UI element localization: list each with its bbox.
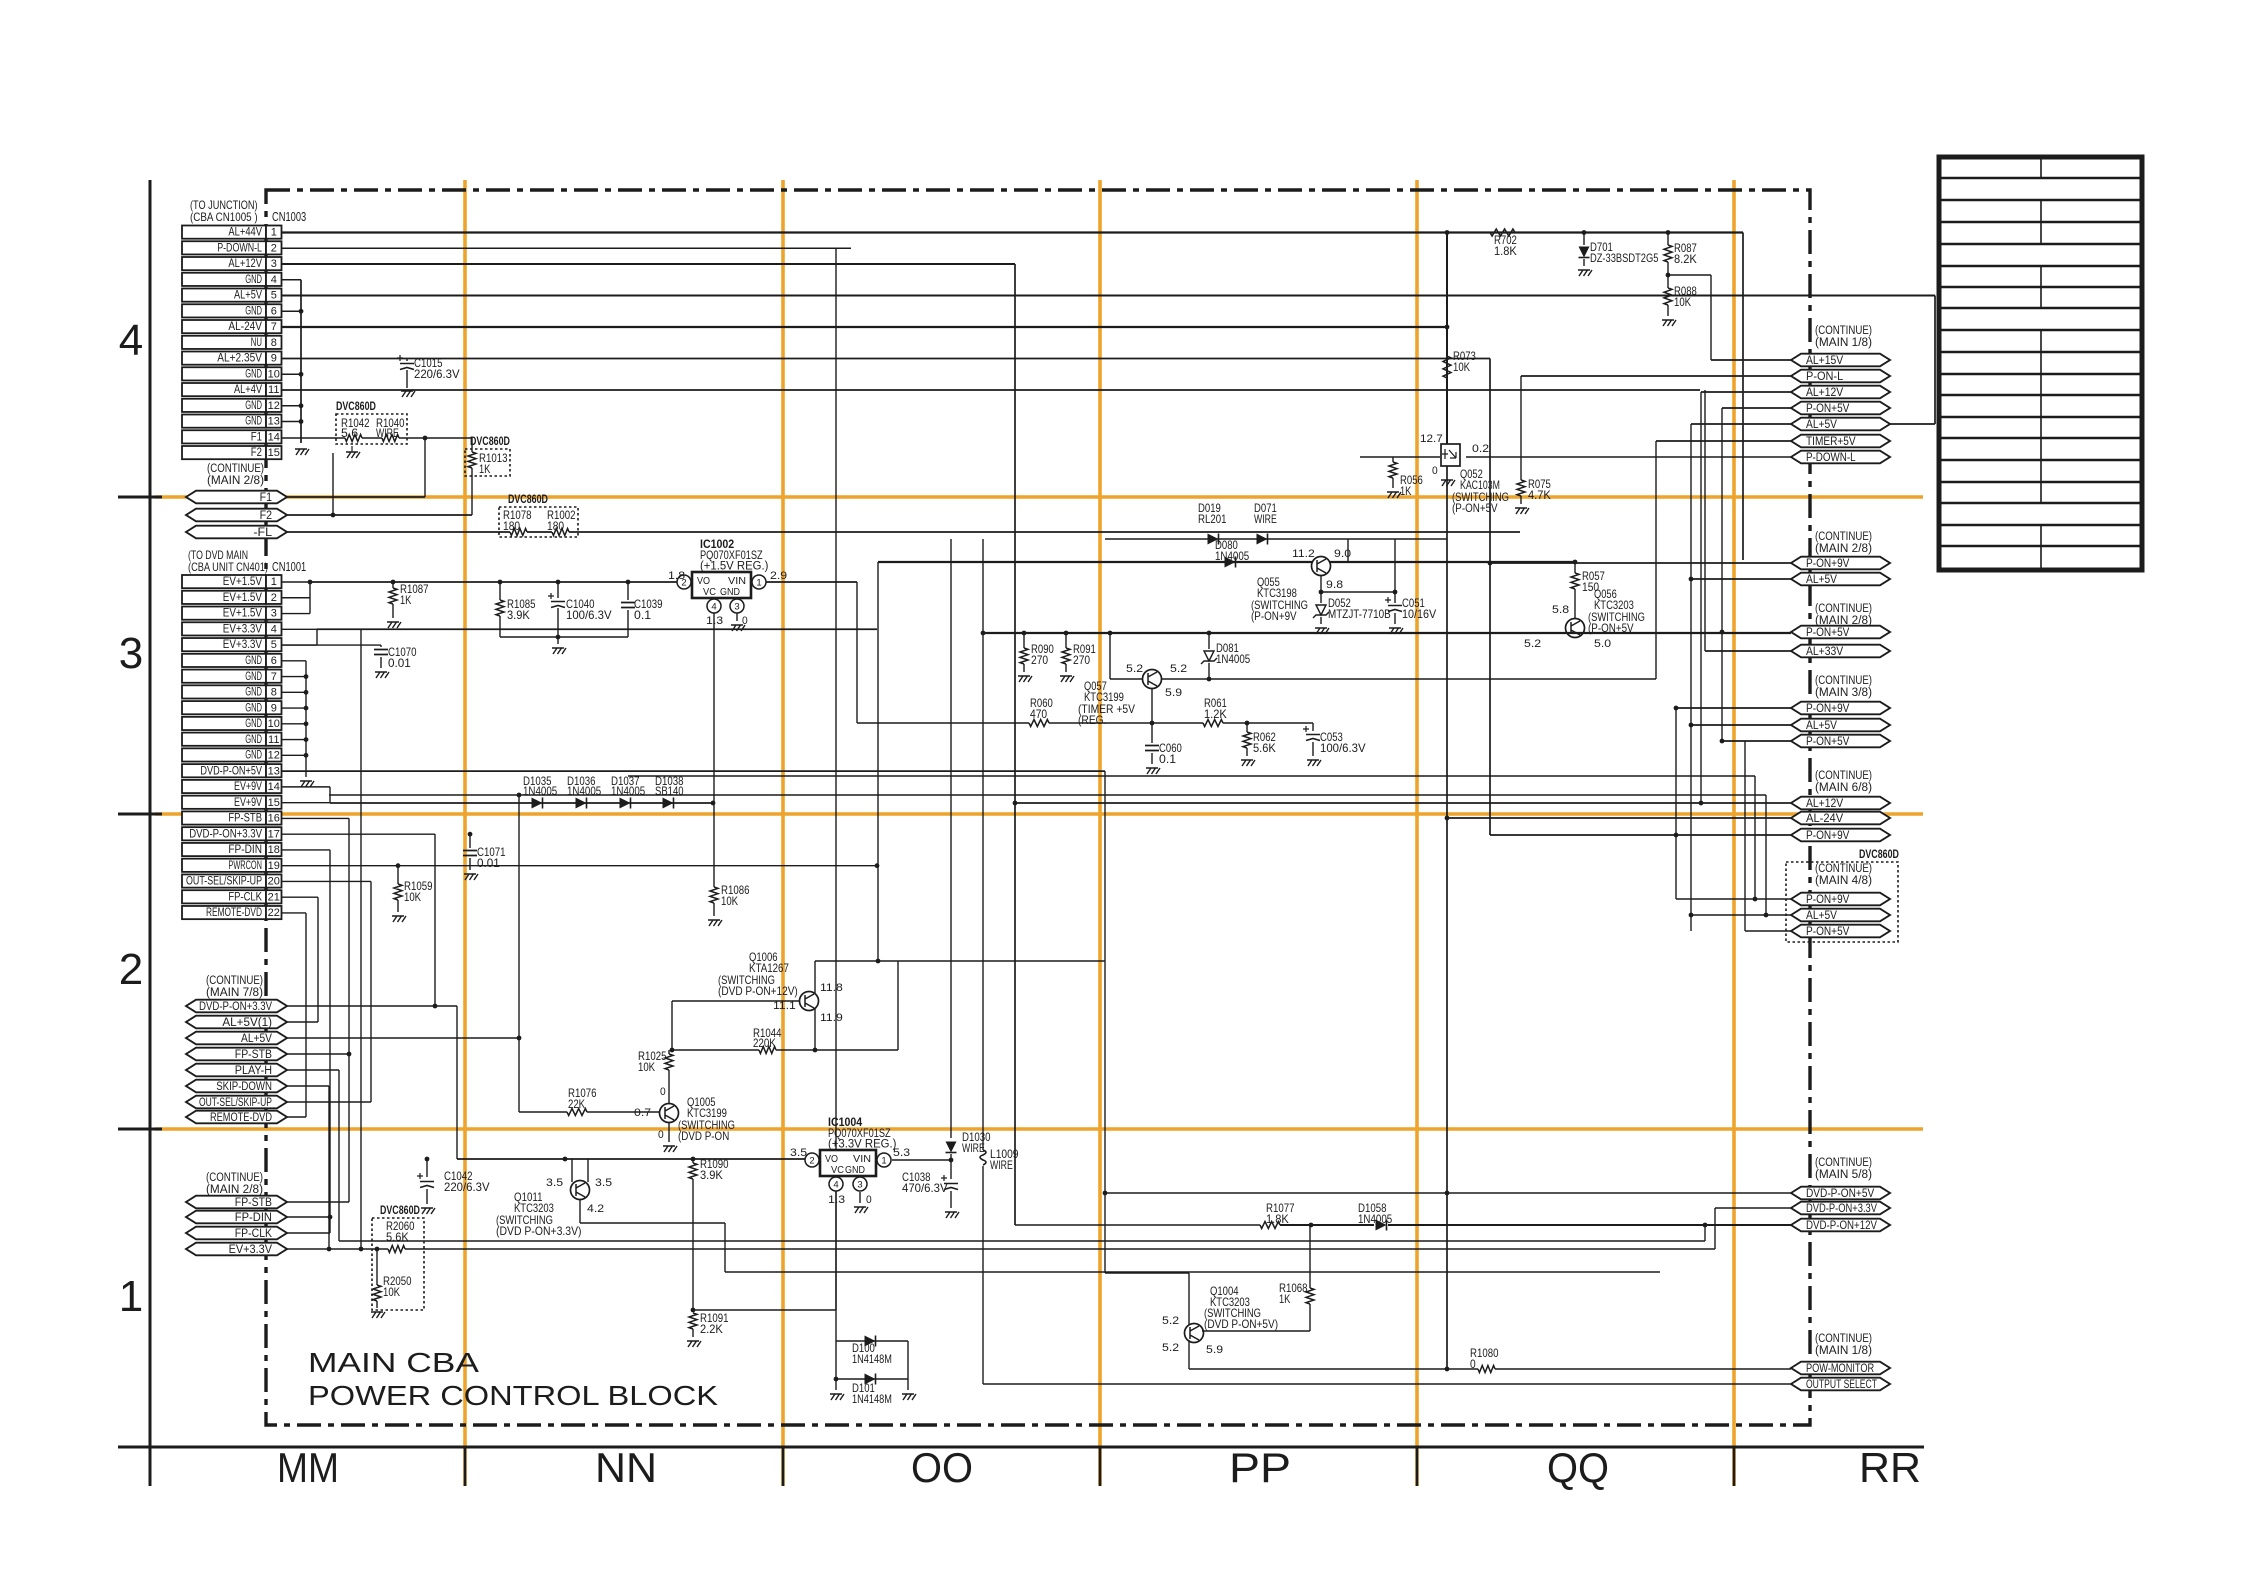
svg-text:1K: 1K xyxy=(400,593,411,607)
svg-text:4: 4 xyxy=(271,274,277,286)
svg-text:DVD-P-ON+3.3V: DVD-P-ON+3.3V xyxy=(1806,1203,1877,1215)
svg-text:AL+5V: AL+5V xyxy=(1806,720,1837,732)
svg-text:(+3.3V REG.): (+3.3V REG.) xyxy=(828,1139,897,1151)
svg-text:5.9: 5.9 xyxy=(1165,687,1182,699)
svg-text:DVD-P-ON+3.3V: DVD-P-ON+3.3V xyxy=(199,1001,272,1013)
svg-text:(CONTINUE): (CONTINUE) xyxy=(1815,531,1872,543)
svg-text:PP: PP xyxy=(1229,1444,1291,1491)
svg-text:EV+3.3V: EV+3.3V xyxy=(229,1244,273,1256)
svg-text:4.7K: 4.7K xyxy=(1528,488,1551,502)
svg-text:AL-24V: AL-24V xyxy=(228,321,262,333)
svg-text:(CBA CN1005 ): (CBA CN1005 ) xyxy=(190,210,258,224)
svg-text:5.6K: 5.6K xyxy=(386,1230,409,1244)
svg-text:8: 8 xyxy=(271,687,277,699)
svg-text:AL+2.35V: AL+2.35V xyxy=(217,353,262,365)
svg-text:5.2: 5.2 xyxy=(1126,663,1143,675)
svg-text:270: 270 xyxy=(1031,653,1048,667)
svg-text:DVC860D: DVC860D xyxy=(1859,847,1899,861)
svg-text:WIRE: WIRE xyxy=(1254,512,1277,526)
svg-text:11.2: 11.2 xyxy=(1292,548,1315,560)
svg-text:OO: OO xyxy=(911,1444,973,1491)
svg-text:3: 3 xyxy=(271,258,277,270)
svg-text:220/6.3V: 220/6.3V xyxy=(414,367,460,381)
svg-text:14: 14 xyxy=(268,781,280,793)
svg-text:F1: F1 xyxy=(260,492,272,504)
svg-text:OUTPUT SELECT: OUTPUT SELECT xyxy=(1806,1379,1877,1391)
svg-text:1N4005: 1N4005 xyxy=(523,784,557,798)
svg-text:0: 0 xyxy=(660,1086,666,1098)
svg-text:(REG.: (REG. xyxy=(1078,713,1107,727)
svg-text:1: 1 xyxy=(271,576,277,588)
svg-text:FP-DIN: FP-DIN xyxy=(235,1212,272,1224)
svg-text:F1: F1 xyxy=(251,431,262,443)
svg-text:QQ: QQ xyxy=(1547,1444,1609,1491)
svg-text:AL+12V: AL+12V xyxy=(228,258,262,270)
svg-text:5.0: 5.0 xyxy=(1594,638,1611,650)
svg-text:(MAIN 1/8): (MAIN 1/8) xyxy=(1815,337,1872,349)
svg-text:(MAIN 2/8): (MAIN 2/8) xyxy=(1815,615,1872,627)
svg-text:5.2: 5.2 xyxy=(1162,1315,1179,1327)
svg-text:180: 180 xyxy=(547,519,564,533)
svg-text:FP-STB: FP-STB xyxy=(228,813,262,825)
svg-text:F2: F2 xyxy=(260,510,272,522)
svg-text:DVC860D: DVC860D xyxy=(470,434,510,448)
svg-text:OUT-SEL/SKIP-UP: OUT-SEL/SKIP-UP xyxy=(186,876,262,888)
svg-text:(DVD P-ON+3.3V): (DVD P-ON+3.3V) xyxy=(496,1224,582,1238)
svg-text:10K: 10K xyxy=(638,1060,655,1074)
svg-text:1.8K: 1.8K xyxy=(1266,1212,1289,1226)
svg-text:1N4148M: 1N4148M xyxy=(852,1392,892,1406)
svg-text:0: 0 xyxy=(1470,1357,1476,1371)
svg-text:5.3: 5.3 xyxy=(893,1147,910,1159)
svg-text:P-ON+9V: P-ON+9V xyxy=(1806,830,1850,842)
svg-text:2: 2 xyxy=(271,242,277,254)
svg-text:9: 9 xyxy=(271,702,277,714)
svg-text:RR: RR xyxy=(1859,1444,1921,1491)
svg-text:12: 12 xyxy=(268,400,280,412)
svg-text:EV+9V: EV+9V xyxy=(234,797,262,809)
svg-text:11.1: 11.1 xyxy=(773,1000,796,1012)
svg-text:5.2: 5.2 xyxy=(1524,638,1541,650)
svg-text:F2: F2 xyxy=(251,447,262,459)
svg-text:2: 2 xyxy=(271,592,277,604)
svg-text:6: 6 xyxy=(271,305,277,317)
svg-text:(CONTINUE): (CONTINUE) xyxy=(1815,325,1872,337)
svg-text:CN1001: CN1001 xyxy=(272,560,306,574)
svg-text:5: 5 xyxy=(271,639,277,651)
svg-text:0.2: 0.2 xyxy=(1472,443,1489,455)
svg-text:GND: GND xyxy=(245,750,262,762)
svg-text:DZ-33BSDT2G5: DZ-33BSDT2G5 xyxy=(1590,251,1659,265)
svg-text:5.2: 5.2 xyxy=(1162,1342,1179,1354)
svg-text:CN1003: CN1003 xyxy=(272,210,306,224)
svg-text:AL+4V: AL+4V xyxy=(234,384,262,396)
svg-text:3: 3 xyxy=(271,608,277,620)
svg-text:GND: GND xyxy=(245,305,262,317)
svg-text:4: 4 xyxy=(711,602,716,613)
svg-text:P-DOWN-L: P-DOWN-L xyxy=(1806,452,1856,464)
svg-text:EV+1.5V: EV+1.5V xyxy=(223,576,262,588)
svg-text:(MAIN 7/8): (MAIN 7/8) xyxy=(206,987,263,999)
svg-text:DVC860D: DVC860D xyxy=(380,1203,420,1217)
svg-text:1.8K: 1.8K xyxy=(1494,244,1517,258)
svg-text:FP-CLK: FP-CLK xyxy=(235,1228,272,1240)
svg-text:EV+3.3V: EV+3.3V xyxy=(223,639,262,651)
svg-text:FP-STB: FP-STB xyxy=(235,1049,272,1061)
svg-text:4: 4 xyxy=(119,316,143,365)
svg-text:-FL: -FL xyxy=(253,527,272,539)
svg-text:(CONTINUE): (CONTINUE) xyxy=(1815,603,1872,615)
svg-text:IC1004: IC1004 xyxy=(828,1115,862,1129)
svg-text:100/6.3V: 100/6.3V xyxy=(1320,741,1366,755)
svg-text:P-ON+9V: P-ON+9V xyxy=(1806,703,1850,715)
svg-text:1.3: 1.3 xyxy=(828,1194,845,1206)
svg-text:NN: NN xyxy=(595,1444,657,1491)
svg-text:0.01: 0.01 xyxy=(388,656,411,670)
svg-text:OUT-SEL/SKIP-UP: OUT-SEL/SKIP-UP xyxy=(199,1097,272,1109)
svg-text:P-ON+5V: P-ON+5V xyxy=(1806,403,1850,415)
svg-text:GND: GND xyxy=(845,1165,865,1176)
svg-text:(P-ON+9V: (P-ON+9V xyxy=(1251,609,1297,623)
svg-text:15: 15 xyxy=(268,797,280,809)
svg-text:(MAIN 2/8): (MAIN 2/8) xyxy=(207,475,264,487)
svg-text:9.0: 9.0 xyxy=(1334,548,1351,560)
svg-text:1.3: 1.3 xyxy=(706,615,723,627)
svg-text:0: 0 xyxy=(1432,465,1438,477)
svg-text:1K: 1K xyxy=(479,462,490,476)
svg-text:17: 17 xyxy=(268,828,280,840)
svg-text:AL+5V(1): AL+5V(1) xyxy=(222,1017,272,1029)
svg-text:0: 0 xyxy=(866,1194,872,1206)
svg-text:GND: GND xyxy=(245,655,262,667)
svg-text:22K: 22K xyxy=(568,1097,585,1111)
svg-text:P-ON-L: P-ON-L xyxy=(1806,371,1844,383)
svg-text:AL+44V: AL+44V xyxy=(228,227,262,239)
svg-text:P-ON+9V: P-ON+9V xyxy=(1806,558,1850,570)
svg-text:POWER CONTROL BLOCK: POWER CONTROL BLOCK xyxy=(308,1380,718,1411)
svg-text:DVD-P-ON+5V: DVD-P-ON+5V xyxy=(200,765,262,777)
svg-text:DVC860D: DVC860D xyxy=(508,492,548,506)
svg-text:(MAIN 2/8): (MAIN 2/8) xyxy=(1815,543,1872,555)
svg-text:13: 13 xyxy=(268,416,280,428)
svg-text:NU: NU xyxy=(251,337,262,349)
svg-text:3: 3 xyxy=(734,602,739,613)
svg-text:10K: 10K xyxy=(404,890,421,904)
svg-text:GND: GND xyxy=(245,687,262,699)
svg-text:(MAIN 3/8): (MAIN 3/8) xyxy=(1815,687,1872,699)
svg-text:(P-ON+5V: (P-ON+5V xyxy=(1452,501,1498,515)
svg-text:MAIN CBA: MAIN CBA xyxy=(308,1347,479,1378)
svg-text:11: 11 xyxy=(268,734,279,746)
svg-text:3: 3 xyxy=(119,629,143,678)
svg-text:18: 18 xyxy=(268,844,280,856)
svg-text:4: 4 xyxy=(833,1180,838,1191)
svg-text:VIN: VIN xyxy=(728,576,746,587)
svg-text:3.9K: 3.9K xyxy=(507,608,530,622)
svg-text:REMOTE-DVD: REMOTE-DVD xyxy=(206,907,262,919)
svg-text:0.7: 0.7 xyxy=(634,1107,651,1119)
svg-text:MTZJT-7710B: MTZJT-7710B xyxy=(1328,607,1391,621)
svg-text:VO: VO xyxy=(697,576,710,587)
svg-text:22: 22 xyxy=(268,907,280,919)
svg-text:5.8: 5.8 xyxy=(1552,604,1569,616)
svg-text:GND: GND xyxy=(245,416,262,428)
svg-text:270: 270 xyxy=(1073,653,1090,667)
svg-text:19: 19 xyxy=(268,860,280,872)
svg-text:6: 6 xyxy=(271,655,277,667)
svg-text:2.2K: 2.2K xyxy=(700,1322,723,1336)
svg-text:FP-STB: FP-STB xyxy=(235,1197,272,1209)
svg-text:(CONTINUE): (CONTINUE) xyxy=(206,1172,263,1184)
svg-text:9.8: 9.8 xyxy=(1326,579,1343,591)
svg-text:GND: GND xyxy=(245,400,262,412)
svg-text:21: 21 xyxy=(268,891,280,903)
svg-text:1.2K: 1.2K xyxy=(1204,707,1227,721)
svg-text:AL+5V: AL+5V xyxy=(1806,419,1837,431)
svg-text:MM: MM xyxy=(277,1444,339,1491)
svg-text:8.2K: 8.2K xyxy=(1674,252,1697,266)
svg-text:1N4005: 1N4005 xyxy=(1358,1212,1392,1226)
svg-text:DVD-P-ON+3.3V: DVD-P-ON+3.3V xyxy=(189,828,262,840)
svg-text:P-ON+9V: P-ON+9V xyxy=(1806,894,1850,906)
svg-text:5.9: 5.9 xyxy=(1206,1344,1223,1356)
svg-text:AL+12V: AL+12V xyxy=(1806,387,1843,399)
svg-text:P-ON+5V: P-ON+5V xyxy=(1806,926,1850,938)
svg-text:IC1002: IC1002 xyxy=(700,537,734,551)
svg-text:PLAY-H: PLAY-H xyxy=(235,1065,272,1077)
svg-text:1N4005: 1N4005 xyxy=(1216,652,1250,666)
svg-text:GND: GND xyxy=(245,718,262,730)
svg-text:DVD-P-ON+12V: DVD-P-ON+12V xyxy=(1806,1220,1877,1232)
svg-text:10K: 10K xyxy=(721,894,738,908)
svg-text:PWRCON: PWRCON xyxy=(228,860,262,872)
svg-text:4.2: 4.2 xyxy=(587,1203,604,1215)
svg-text:RL201: RL201 xyxy=(1198,512,1227,526)
svg-text:VIN: VIN xyxy=(853,1154,871,1165)
svg-text:0: 0 xyxy=(742,615,748,627)
svg-text:FP-CLK: FP-CLK xyxy=(228,891,262,903)
svg-text:5.2: 5.2 xyxy=(1170,663,1187,675)
svg-text:DVD-P-ON+5V: DVD-P-ON+5V xyxy=(1806,1188,1874,1200)
svg-text:(MAIN 1/8): (MAIN 1/8) xyxy=(1815,1345,1872,1357)
svg-text:3: 3 xyxy=(857,1180,862,1191)
svg-text:16: 16 xyxy=(268,813,280,825)
svg-text:5: 5 xyxy=(271,290,277,302)
svg-text:3.5: 3.5 xyxy=(546,1177,563,1189)
svg-text:(CONTINUE): (CONTINUE) xyxy=(206,975,263,987)
svg-text:EV+1.5V: EV+1.5V xyxy=(223,592,262,604)
svg-text:GND: GND xyxy=(245,671,262,683)
svg-text:(CONTINUE): (CONTINUE) xyxy=(1815,1333,1872,1345)
svg-text:SKIP-DOWN: SKIP-DOWN xyxy=(216,1081,272,1093)
svg-text:0: 0 xyxy=(658,1129,664,1141)
svg-text:0.01: 0.01 xyxy=(477,856,500,870)
svg-text:13: 13 xyxy=(268,765,280,777)
svg-text:10K: 10K xyxy=(1453,360,1470,374)
svg-text:AL+5V: AL+5V xyxy=(241,1033,272,1045)
svg-text:12.7: 12.7 xyxy=(1420,433,1443,445)
svg-text:1K: 1K xyxy=(1400,484,1411,498)
svg-text:VC: VC xyxy=(831,1165,844,1176)
svg-text:WIRE: WIRE xyxy=(962,1141,985,1155)
svg-text:1N4005: 1N4005 xyxy=(611,784,645,798)
svg-text:10K: 10K xyxy=(383,1285,400,1299)
svg-text:EV+1.5V: EV+1.5V xyxy=(223,608,262,620)
svg-text:220K: 220K xyxy=(753,1036,776,1050)
svg-text:WIRE: WIRE xyxy=(990,1158,1013,1172)
svg-text:GND: GND xyxy=(245,702,262,714)
svg-text:1.8: 1.8 xyxy=(668,570,685,582)
svg-text:(CONTINUE): (CONTINUE) xyxy=(1815,1157,1872,1169)
svg-text:(MAIN 2/8): (MAIN 2/8) xyxy=(206,1184,263,1196)
svg-text:AL+12V: AL+12V xyxy=(1806,798,1843,810)
svg-text:11: 11 xyxy=(268,384,279,396)
svg-text:5.6: 5.6 xyxy=(341,426,358,440)
svg-text:2: 2 xyxy=(119,945,143,994)
svg-text:100/6.3V: 100/6.3V xyxy=(566,608,612,622)
svg-text:P-ON+5V: P-ON+5V xyxy=(1806,627,1850,639)
svg-text:POW-MONITOR: POW-MONITOR xyxy=(1806,1363,1874,1375)
svg-text:1N4005: 1N4005 xyxy=(567,784,601,798)
svg-text:EV+3.3V: EV+3.3V xyxy=(223,623,262,635)
svg-text:AL+5V: AL+5V xyxy=(234,290,262,302)
svg-text:10/16V: 10/16V xyxy=(1402,607,1436,621)
svg-text:GND: GND xyxy=(245,274,262,286)
svg-text:GND: GND xyxy=(720,587,740,598)
svg-text:7: 7 xyxy=(271,321,277,333)
svg-text:(MAIN 6/8): (MAIN 6/8) xyxy=(1815,782,1872,794)
svg-text:AL-24V: AL-24V xyxy=(1806,813,1844,825)
svg-text:P-DOWN-L: P-DOWN-L xyxy=(217,242,262,254)
svg-text:(CONTINUE): (CONTINUE) xyxy=(1815,863,1872,875)
svg-text:VO: VO xyxy=(825,1154,838,1165)
svg-text:1N4148M: 1N4148M xyxy=(852,1352,892,1366)
svg-text:1: 1 xyxy=(119,1272,143,1321)
svg-text:1N4005: 1N4005 xyxy=(1215,549,1249,563)
svg-text:GND: GND xyxy=(245,368,262,380)
svg-text:P-ON+5V: P-ON+5V xyxy=(1806,736,1850,748)
svg-text:GND: GND xyxy=(245,734,262,746)
svg-text:1K: 1K xyxy=(1279,1292,1290,1306)
svg-text:470: 470 xyxy=(1030,707,1047,721)
svg-text:(DVD P-ON+12V): (DVD P-ON+12V) xyxy=(718,984,798,998)
svg-text:AL+15V: AL+15V xyxy=(1806,355,1843,367)
svg-text:FP-DIN: FP-DIN xyxy=(228,844,262,856)
svg-text:1: 1 xyxy=(881,1156,886,1167)
svg-text:TIMER+5V: TIMER+5V xyxy=(1806,436,1856,448)
svg-text:15: 15 xyxy=(268,447,280,459)
svg-text:3.5: 3.5 xyxy=(790,1147,807,1159)
svg-text:(CBA UNIT CN401): (CBA UNIT CN401) xyxy=(188,560,268,574)
svg-text:0.1: 0.1 xyxy=(634,608,651,622)
svg-text:220/6.3V: 220/6.3V xyxy=(444,1180,490,1194)
svg-text:470/6.3V: 470/6.3V xyxy=(902,1181,948,1195)
svg-text:2: 2 xyxy=(809,1156,814,1167)
svg-text:WIRE: WIRE xyxy=(376,426,399,440)
svg-text:7: 7 xyxy=(271,671,277,683)
svg-text:VC: VC xyxy=(703,587,716,598)
svg-text:1: 1 xyxy=(271,227,277,239)
svg-text:(+1.5V REG.): (+1.5V REG.) xyxy=(700,561,769,573)
svg-text:AL+5V: AL+5V xyxy=(1806,910,1837,922)
svg-text:3.5: 3.5 xyxy=(595,1177,612,1189)
svg-text:(P-ON+5V: (P-ON+5V xyxy=(1588,621,1634,635)
svg-text:REMOTE-DVD: REMOTE-DVD xyxy=(210,1112,272,1124)
svg-text:20: 20 xyxy=(268,876,280,888)
svg-text:14: 14 xyxy=(268,431,280,443)
svg-text:(CONTINUE): (CONTINUE) xyxy=(1815,675,1872,687)
svg-text:(DVD P-ON: (DVD P-ON xyxy=(678,1129,729,1143)
svg-text:DVC860D: DVC860D xyxy=(336,399,376,413)
svg-text:9: 9 xyxy=(271,353,277,365)
svg-text:SB140: SB140 xyxy=(655,784,684,798)
svg-text:EV+9V: EV+9V xyxy=(234,781,262,793)
svg-text:12: 12 xyxy=(268,750,280,762)
svg-text:10: 10 xyxy=(268,718,280,730)
svg-text:5.6K: 5.6K xyxy=(1253,741,1276,755)
svg-text:8: 8 xyxy=(271,337,277,349)
svg-text:0.1: 0.1 xyxy=(1159,752,1176,766)
svg-text:10K: 10K xyxy=(1674,295,1691,309)
svg-text:(MAIN 5/8): (MAIN 5/8) xyxy=(1815,1169,1872,1181)
svg-text:4: 4 xyxy=(271,623,277,635)
svg-text:AL+5V: AL+5V xyxy=(1806,574,1837,586)
svg-text:(MAIN 4/8): (MAIN 4/8) xyxy=(1815,875,1872,887)
svg-text:10: 10 xyxy=(268,368,280,380)
svg-text:(CONTINUE): (CONTINUE) xyxy=(1815,770,1872,782)
svg-text:2.9: 2.9 xyxy=(770,570,787,582)
svg-text:3.9K: 3.9K xyxy=(700,1168,723,1182)
svg-text:1: 1 xyxy=(756,578,761,589)
svg-text:11.9: 11.9 xyxy=(820,1012,843,1024)
svg-text:AL+33V: AL+33V xyxy=(1806,646,1843,658)
svg-text:11.8: 11.8 xyxy=(820,982,843,994)
svg-text:(DVD P-ON+5V): (DVD P-ON+5V) xyxy=(1204,1317,1278,1331)
svg-text:180: 180 xyxy=(503,519,520,533)
svg-text:(CONTINUE): (CONTINUE) xyxy=(207,463,264,475)
